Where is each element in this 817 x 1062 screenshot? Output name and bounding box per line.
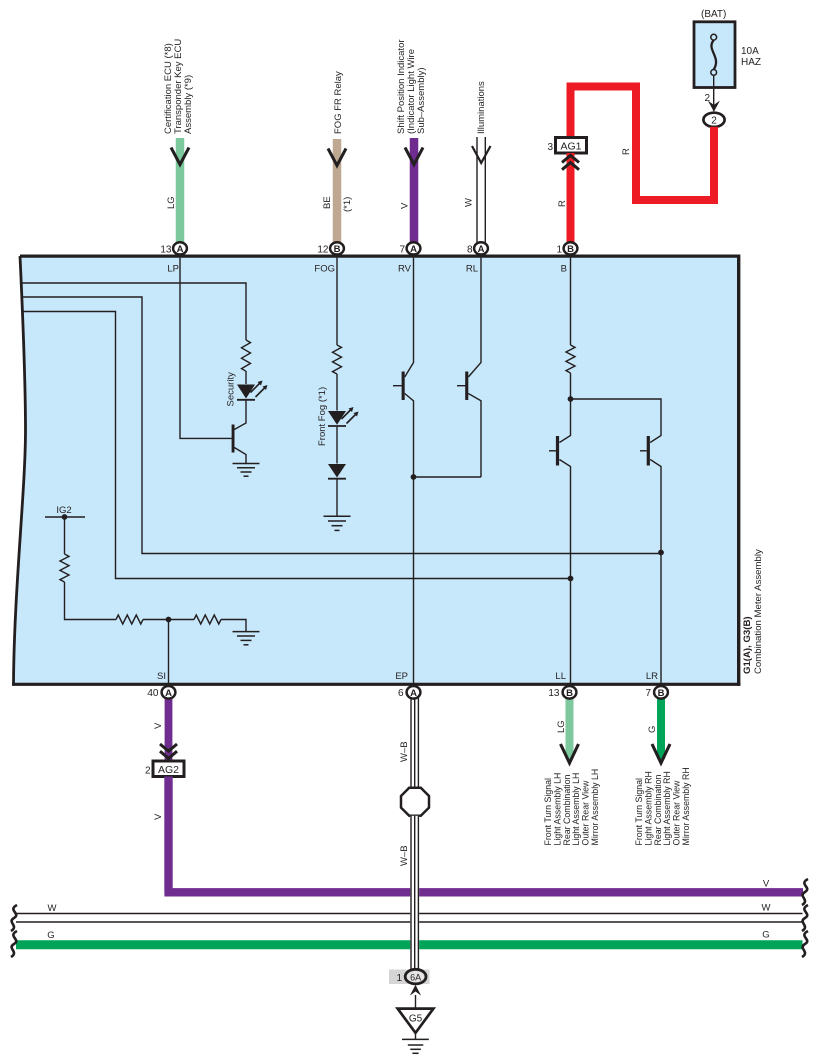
svg-text:LL: LL bbox=[555, 671, 566, 682]
wire W from Illuminations bbox=[477, 137, 485, 244]
transistor Q-RV bbox=[402, 372, 405, 401]
pin 40 A (SI) bbox=[147, 686, 175, 699]
wire RV internal bbox=[405, 258, 414, 377]
svg-text:W–B: W–B bbox=[399, 845, 410, 866]
wire LG from Certification ECU bbox=[176, 138, 185, 244]
wire W horizontal bbox=[16, 914, 803, 923]
svg-text:V: V bbox=[763, 879, 770, 890]
base stub bbox=[549, 450, 556, 452]
svg-text:A: A bbox=[410, 244, 417, 255]
noise filter octagon bbox=[401, 788, 429, 816]
svg-text:A: A bbox=[177, 244, 184, 255]
wire R from fuse bbox=[571, 87, 715, 201]
wire G from LR bbox=[657, 697, 665, 759]
svg-text:(BAT): (BAT) bbox=[701, 9, 726, 20]
svg-text:LP: LP bbox=[167, 264, 179, 275]
ground security bbox=[233, 464, 260, 477]
svg-text:12: 12 bbox=[317, 244, 329, 255]
wire to G5 bbox=[415, 995, 417, 1008]
svg-text:Security: Security bbox=[226, 372, 237, 407]
svg-text:B: B bbox=[561, 264, 567, 275]
resistor R2 horizontal bbox=[194, 615, 221, 624]
node LL-C junction bbox=[568, 576, 574, 582]
base stub bbox=[457, 385, 466, 387]
LED Security bbox=[237, 381, 268, 400]
svg-text:A: A bbox=[478, 244, 485, 255]
svg-text:2: 2 bbox=[145, 766, 151, 777]
pin 13 A (LP) bbox=[160, 242, 187, 255]
chevron on V wire bbox=[405, 148, 423, 165]
box bottom edge bbox=[12, 683, 740, 686]
wire bbox=[245, 371, 247, 384]
IG2 node dot bbox=[62, 514, 68, 520]
wire bbox=[221, 620, 246, 632]
squiggle G left bbox=[11, 931, 17, 957]
pin 13 B (LL) bbox=[548, 686, 576, 699]
connector oval 2 bbox=[703, 113, 724, 127]
transistor Q-LR bbox=[647, 436, 650, 466]
svg-text:2: 2 bbox=[711, 116, 717, 127]
svg-text:V: V bbox=[400, 202, 411, 209]
pin 8 A (RL) bbox=[467, 242, 488, 255]
svg-text:B: B bbox=[567, 244, 574, 255]
svg-text:Combination Meter Assembly: Combination Meter Assembly bbox=[753, 549, 764, 674]
resistor front fog bbox=[333, 345, 342, 374]
svg-text:R: R bbox=[621, 148, 632, 155]
wire V from pin SI to AG2 bbox=[165, 697, 173, 761]
node bbox=[411, 474, 417, 480]
svg-text:10A: 10A bbox=[741, 46, 759, 57]
svg-text:Mirror Assembly LH: Mirror Assembly LH bbox=[590, 769, 600, 846]
svg-text:13: 13 bbox=[160, 244, 172, 255]
wire BE from FOG FR Relay bbox=[333, 139, 342, 244]
svg-text:LG: LG bbox=[556, 720, 567, 733]
svg-text:A: A bbox=[410, 688, 417, 699]
svg-text:13: 13 bbox=[548, 688, 560, 699]
wire bbox=[65, 582, 117, 620]
chevron on W wire bbox=[472, 146, 491, 163]
node line B wire bbox=[22, 297, 662, 554]
resistor IG2 bbox=[60, 554, 69, 582]
arrow into 6A bbox=[410, 985, 421, 996]
transistor Q security bbox=[232, 425, 235, 453]
svg-text:G: G bbox=[47, 930, 54, 941]
connector AG1 bbox=[556, 138, 587, 154]
pin 12 B (FOG) bbox=[317, 242, 344, 255]
svg-text:B: B bbox=[334, 244, 341, 255]
svg-text:A: A bbox=[165, 688, 172, 699]
wire FOG internal bbox=[336, 258, 338, 345]
connector oval 6A bbox=[405, 969, 426, 984]
svg-text:AG2: AG2 bbox=[158, 764, 179, 776]
wire emitter LL bbox=[559, 460, 570, 685]
svg-text:B: B bbox=[658, 688, 665, 699]
svg-text:LG: LG bbox=[166, 196, 177, 209]
label Front Turn Signal RH block bbox=[634, 767, 691, 845]
LED front fog bbox=[328, 407, 359, 426]
base stub bbox=[640, 450, 647, 452]
node line A wire bbox=[21, 283, 246, 340]
svg-text:Assembly (*9): Assembly (*9) bbox=[183, 75, 194, 134]
wire bbox=[336, 427, 338, 464]
arrow G bbox=[652, 744, 670, 763]
squiggle V right bbox=[802, 879, 808, 905]
svg-text:(*1): (*1) bbox=[342, 197, 353, 212]
base stub bbox=[393, 385, 402, 387]
resistor security bbox=[242, 340, 251, 371]
wire emitters join bbox=[414, 476, 482, 478]
wire bbox=[336, 480, 338, 517]
wire emitter bbox=[405, 394, 414, 478]
svg-text:W: W bbox=[48, 903, 57, 914]
node SI junction bbox=[166, 617, 172, 623]
transistor Q-RL bbox=[465, 372, 468, 401]
box right edge bbox=[737, 255, 740, 686]
chevron on LG wire bbox=[171, 148, 189, 165]
wire V from Shift Position Indicator bbox=[410, 138, 419, 244]
svg-text:G1(A), G3(B): G1(A), G3(B) bbox=[742, 616, 753, 674]
svg-text:RL: RL bbox=[466, 264, 478, 275]
svg-text:1: 1 bbox=[556, 244, 562, 255]
wire bbox=[415, 1033, 417, 1039]
svg-text:G: G bbox=[762, 930, 769, 941]
node bbox=[568, 396, 574, 402]
wire W-B from EP bbox=[410, 697, 419, 788]
pin 1 B (B) bbox=[556, 242, 577, 255]
svg-text:40: 40 bbox=[147, 688, 159, 699]
svg-text:SI: SI bbox=[157, 671, 166, 682]
svg-text:G: G bbox=[647, 726, 658, 733]
svg-text:BE: BE bbox=[322, 196, 333, 209]
svg-text:W: W bbox=[464, 198, 475, 207]
svg-text:FOG: FOG bbox=[314, 264, 335, 275]
node line C wire bbox=[22, 312, 571, 579]
pin 6 A (EP) bbox=[398, 686, 420, 699]
svg-text:LR: LR bbox=[646, 671, 658, 682]
wire LP internal bbox=[180, 258, 232, 439]
svg-text:Mirror Assembly RH: Mirror Assembly RH bbox=[681, 767, 691, 845]
svg-text:Sub–Assembly): Sub–Assembly) bbox=[416, 67, 427, 134]
wire fuse to oval bbox=[713, 75, 715, 111]
svg-text:V: V bbox=[153, 813, 164, 820]
wire bbox=[559, 373, 570, 443]
wire W-B lower bbox=[410, 816, 419, 970]
svg-text:G5: G5 bbox=[409, 1014, 423, 1025]
svg-text:Front Fog (*1): Front Fog (*1) bbox=[317, 387, 328, 446]
svg-text:3: 3 bbox=[547, 142, 553, 153]
wire bbox=[143, 619, 194, 621]
wire B internal bbox=[570, 258, 572, 345]
IG2 bar bbox=[45, 516, 85, 518]
wire bbox=[64, 517, 66, 554]
arrow into oval 2 bbox=[708, 101, 720, 112]
svg-text:AG1: AG1 bbox=[560, 141, 581, 153]
squiggle W left bbox=[11, 905, 17, 931]
wire bbox=[234, 401, 246, 430]
ground point G5 triangle bbox=[398, 1009, 434, 1033]
svg-text:W–B: W–B bbox=[399, 741, 410, 762]
wire V below AG2 bbox=[164, 777, 803, 893]
wire LG from LL bbox=[566, 697, 574, 759]
svg-text:8: 8 bbox=[467, 244, 473, 255]
wire emitter bbox=[234, 448, 246, 464]
transistor Q-LL bbox=[556, 436, 559, 466]
combination meter assembly box G1(A),G3(B) bbox=[14, 256, 739, 684]
squiggle W right bbox=[802, 905, 808, 931]
fuse 10A HAZ box bbox=[694, 22, 735, 88]
wire RL internal bbox=[468, 258, 481, 377]
squiggle G right bbox=[802, 931, 808, 957]
node LR-B junction bbox=[658, 550, 664, 556]
svg-text:W: W bbox=[762, 903, 771, 914]
svg-text:HAZ: HAZ bbox=[741, 57, 761, 68]
pin 7 A (RV) bbox=[399, 242, 420, 255]
resistor B bbox=[566, 345, 575, 373]
svg-text:B: B bbox=[566, 688, 573, 699]
svg-text:6: 6 bbox=[398, 688, 404, 699]
connector 6A background bbox=[389, 970, 430, 985]
svg-text:1: 1 bbox=[396, 973, 402, 984]
wire EP internal bbox=[413, 477, 415, 684]
svg-text:7: 7 bbox=[645, 688, 651, 699]
svg-text:V: V bbox=[153, 722, 164, 729]
pin 7 B (LR) bbox=[645, 686, 667, 699]
wire to LR transistor bbox=[571, 399, 662, 443]
svg-text:FOG FR Relay: FOG FR Relay bbox=[333, 71, 344, 134]
svg-text:7: 7 bbox=[399, 244, 405, 255]
ground front fog bbox=[324, 516, 351, 530]
svg-text:R: R bbox=[557, 200, 568, 207]
chevrons AG1 bbox=[562, 155, 579, 169]
resistor R1 horizontal bbox=[116, 615, 143, 624]
wire R to pin B bbox=[567, 153, 575, 244]
wire G horizontal bbox=[16, 940, 803, 949]
wire emitter LR bbox=[650, 460, 661, 685]
box top edge bbox=[20, 255, 739, 258]
svg-text:6A: 6A bbox=[410, 972, 421, 982]
svg-text:Illuminations: Illuminations bbox=[476, 81, 487, 134]
svg-text:EP: EP bbox=[395, 671, 408, 682]
fuse symbol bbox=[711, 34, 717, 40]
wire SI internal bbox=[168, 620, 170, 685]
chevron on BE wire bbox=[328, 149, 346, 166]
ground G5 bbox=[402, 1039, 429, 1053]
wire emitter bbox=[468, 394, 481, 478]
ground resistor chain bbox=[233, 632, 260, 645]
wire bbox=[336, 374, 338, 411]
box left wavy edge bbox=[14, 256, 26, 684]
connector AG2 bbox=[153, 761, 184, 777]
diode front fog bbox=[328, 464, 346, 479]
label Front Turn Signal LH block bbox=[543, 769, 600, 846]
chevrons AG2 bbox=[160, 744, 177, 758]
svg-text:RV: RV bbox=[398, 264, 412, 275]
arrow LG bbox=[561, 744, 579, 763]
